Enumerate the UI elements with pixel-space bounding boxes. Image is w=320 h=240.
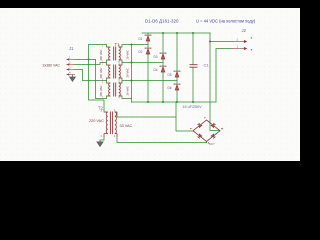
T1 winding row1 primary [109, 47, 111, 60]
T1 row3 core [113, 83, 115, 97]
wire secondary 3 to leg3 mid [122, 81, 177, 84]
diode D6 [174, 84, 181, 90]
wire J1 pin2 to row1 bottom / row2 top [75, 63, 107, 65]
wire C1 bottom lead [192, 68, 194, 102]
wire J1 pin3 to row2 bottom / row3 top [75, 70, 107, 81]
diode D4 [160, 66, 167, 72]
pin numbers J1 [69, 56, 71, 75]
letterbox background [0, 0, 300, 168]
wire diode leg 2 [162, 33, 164, 53]
wire bottom DC bus [132, 101, 217, 103]
pin numbers T2 [101, 109, 116, 138]
T1 row2 core [113, 65, 115, 79]
pin numbers J2 [237, 37, 239, 48]
wire secondary 2 to leg2 mid [122, 63, 163, 66]
connector J1 pins [67, 59, 76, 76]
diode D2 [145, 48, 152, 54]
diode D5 [174, 71, 181, 77]
wire J2 pin2 branch [210, 41, 232, 43]
wire diode leg 3 [176, 33, 178, 71]
wire J1 pin1 [75, 59, 96, 61]
wire primary row3 bottom back to pin1 node [96, 60, 107, 99]
wire C1 top lead [192, 33, 194, 64]
svg-text:15 uF/250V: 15 uF/250V [183, 105, 203, 109]
svg-text:D5: D5 [168, 73, 172, 77]
wire secondary row2 bottom stub [121, 78, 123, 81]
bridge diode tr [211, 123, 216, 128]
svg-text:28 VAC: 28 VAC [126, 68, 130, 77]
wire primary row1 bottom stub [106, 60, 108, 63]
diode D3 [160, 53, 167, 59]
bridge diode br [211, 134, 216, 139]
bridge diode bl [197, 134, 202, 139]
svg-text:380 VAC: 380 VAC [99, 68, 103, 79]
wire primary rail up to row1 top [89, 45, 107, 60]
wire secondary return rail [131, 45, 133, 103]
wire secondary row1 bottom stub [121, 60, 123, 63]
svg-text:BR?: BR? [209, 142, 215, 146]
svg-text:D3: D3 [154, 55, 158, 59]
wire secondary 1 to leg1 mid [122, 45, 148, 48]
T1 winding row3 primary [109, 83, 111, 96]
svg-text:C1: C1 [204, 63, 210, 68]
svg-text:380 VAC: 380 VAC [99, 50, 103, 61]
wire J2 pin1 to bottom bus [216, 49, 232, 103]
T2 pin jogs [104, 111, 108, 113]
wire primary row2 top stub [106, 63, 108, 66]
svg-text:D6: D6 [168, 86, 172, 90]
svg-text:D1: D1 [139, 37, 143, 41]
J2 net flag marks [251, 37, 252, 38]
T1 row3 pin jogs [107, 82, 111, 84]
junction dots [162, 32, 164, 34]
svg-text:33 VAC: 33 VAC [120, 124, 133, 128]
wire primary rail down to T2 primary [89, 60, 105, 113]
T1 winding row2 secondary [119, 65, 121, 78]
bridge rectifier BR1 outline [193, 120, 220, 142]
schematic white sheet [0, 8, 300, 161]
wire top DC bus [142, 32, 210, 34]
svg-text:D4: D4 [154, 68, 158, 72]
T2 core [109, 112, 111, 135]
wire primary row2 bottom stub [106, 78, 108, 81]
bridge diode tl [197, 123, 202, 128]
diode D1 [145, 35, 152, 41]
svg-text:D1-D6 Д161-320: D1-D6 Д161-320 [145, 19, 179, 24]
svg-text:220 VAC: 220 VAC [89, 119, 104, 123]
svg-text:D2: D2 [139, 50, 143, 54]
wire bridge bottom stub [206, 142, 208, 143]
wire T2 secondary top to bridge AC1 [117, 112, 193, 131]
svg-text:J1: J1 [69, 46, 74, 51]
T1 row1 pin jogs [107, 46, 111, 48]
svg-text:28 VAC: 28 VAC [126, 50, 130, 59]
wire secondary row3 bottom stub [122, 96, 132, 99]
T1 row2 pin jogs [107, 64, 111, 66]
pin numbers T1 [102, 43, 121, 99]
wire leg3 extension to T2 path [175, 102, 177, 117]
connector J2 pins [232, 40, 247, 49]
T1 winding row2 primary [109, 65, 111, 78]
wire diode leg 1 [147, 33, 149, 35]
svg-text:J2: J2 [242, 28, 247, 33]
wire T2 primary bottom to ground [100, 137, 104, 142]
svg-text:U = 44 VDC (на холостом ходу): U = 44 VDC (на холостом ходу) [196, 19, 256, 24]
svg-text:3x380 VAC: 3x380 VAC [43, 63, 61, 67]
T1 row1 core [113, 47, 115, 61]
wire primary row3 top stub [106, 81, 108, 84]
svg-text:380 VAC: 380 VAC [99, 86, 103, 97]
T2 secondary winding [115, 112, 117, 134]
svg-text:28 VAC: 28 VAC [126, 86, 130, 95]
wire T2 secondary bottom to bridge bottom [117, 137, 207, 143]
T1 winding row3 secondary [119, 83, 121, 96]
capacitor C1 [190, 65, 198, 68]
wire plus rail down to bridge [210, 33, 220, 131]
T2 primary winding [106, 112, 108, 134]
T1 winding row1 secondary [119, 47, 121, 60]
ground G2 at T2 [97, 142, 103, 147]
bridge corner pin marks [190, 117, 222, 143]
ground G1 at J1 pin4 [70, 75, 76, 82]
